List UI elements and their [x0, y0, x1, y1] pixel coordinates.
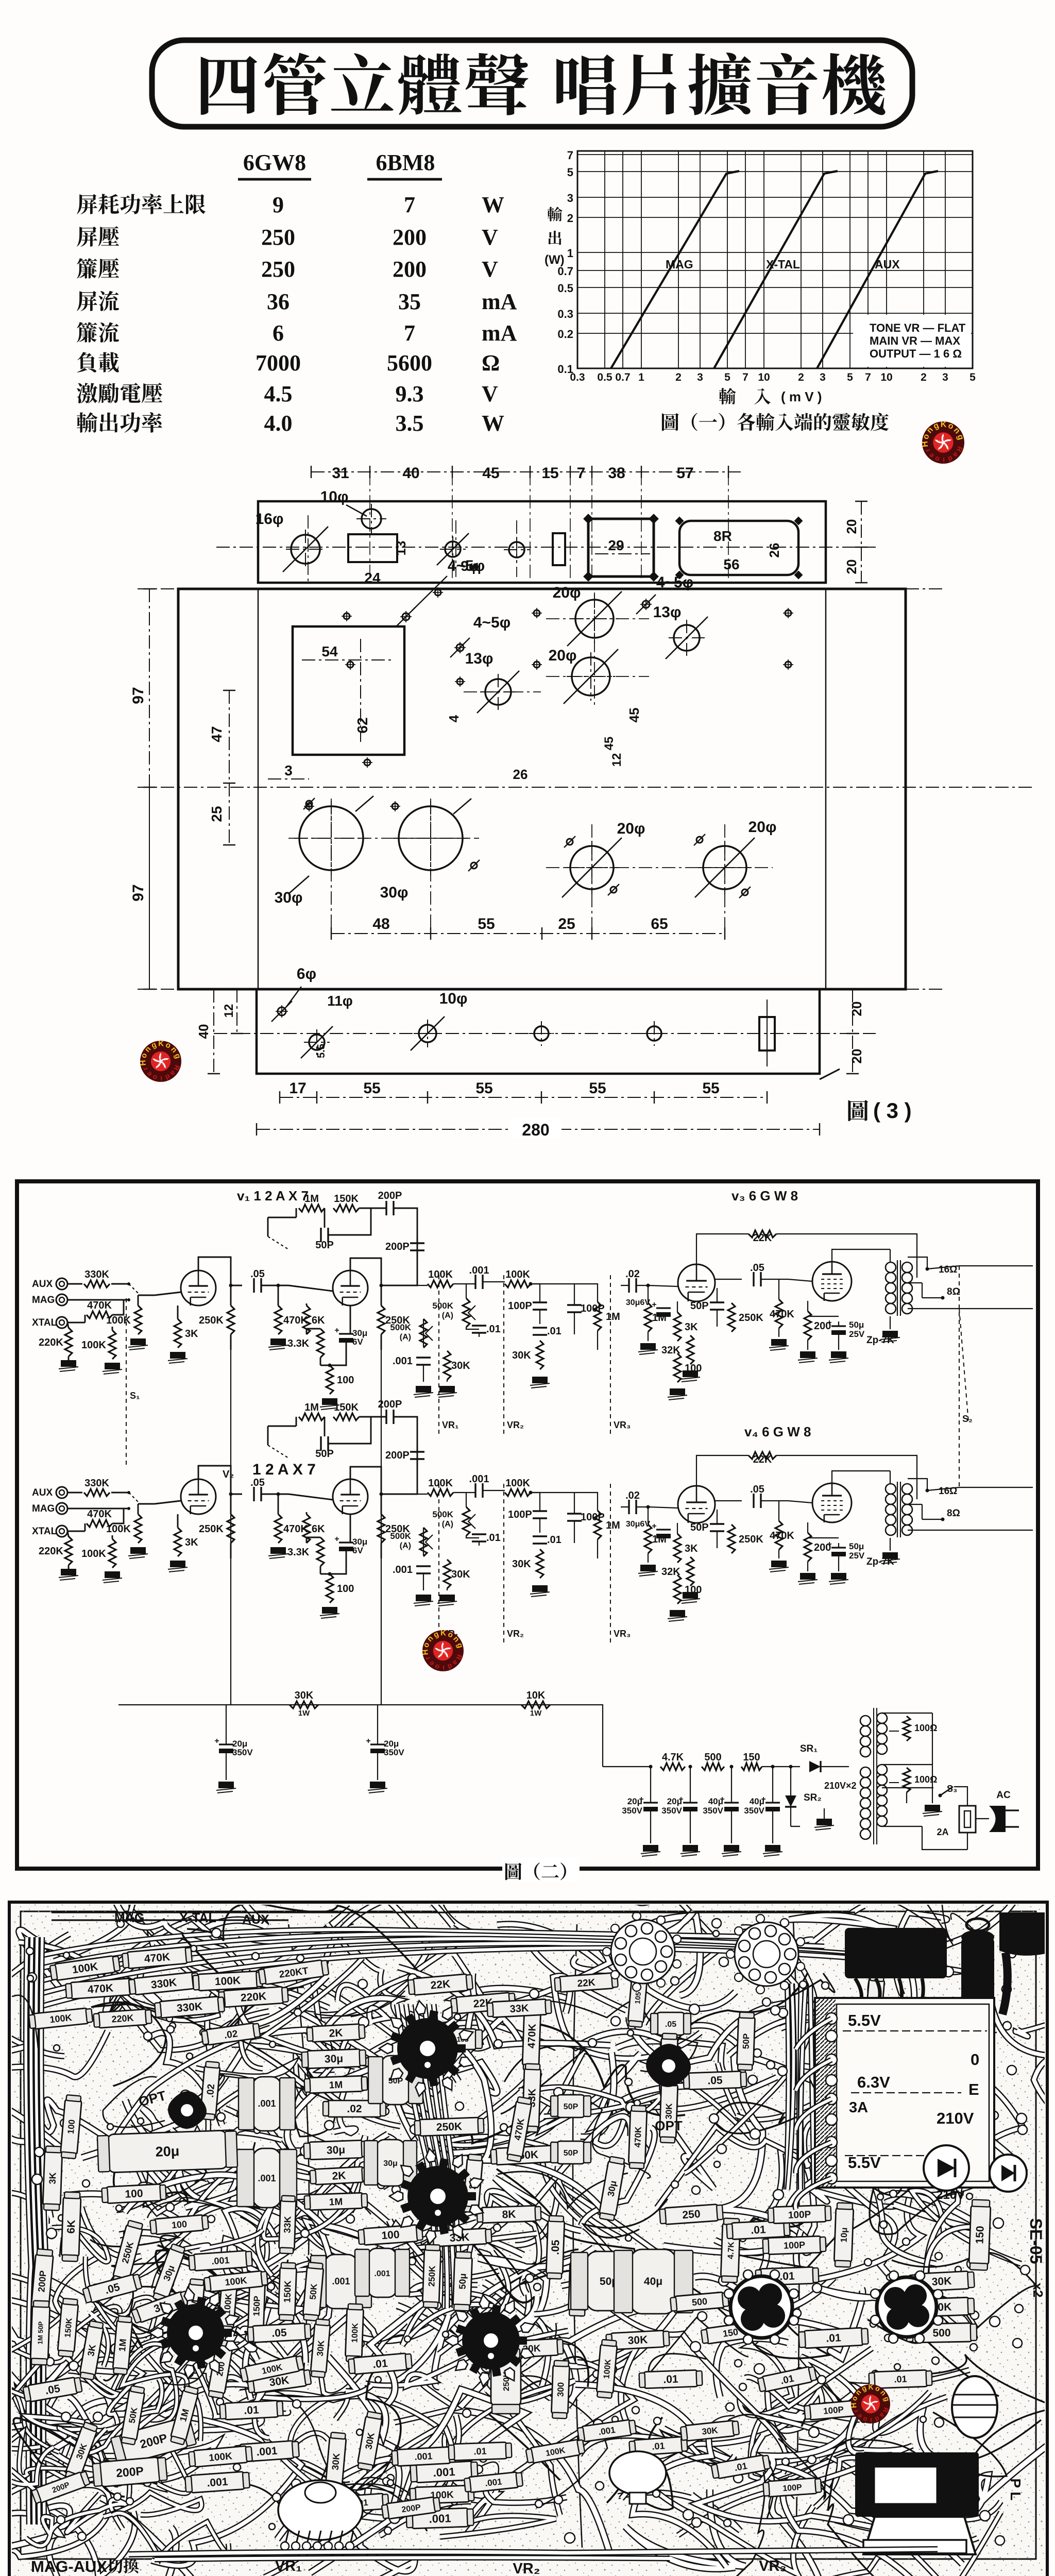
svg-text:Zp-7K: Zp-7K — [866, 1335, 894, 1346]
capacitor .001 — [475, 1275, 483, 1289]
svg-text:0.3: 0.3 — [557, 308, 573, 320]
svg-text:97: 97 — [130, 884, 147, 901]
black capacitor can — [961, 1937, 994, 2019]
svg-text:55: 55 — [475, 1080, 492, 1097]
input jack AUX — [56, 1487, 67, 1498]
svg-text:E: E — [968, 2080, 979, 2098]
component 470K — [506, 2096, 532, 2162]
hole 20phi u1 — [575, 600, 614, 638]
resistor 30K — [444, 1351, 451, 1380]
svg-text:.05: .05 — [250, 1268, 265, 1280]
table row mA — [77, 322, 97, 343]
svg-text:20: 20 — [849, 1049, 864, 1064]
svg-text:V₂: V₂ — [223, 1469, 234, 1480]
x axis title — [719, 388, 736, 404]
tube socket V1 — [379, 1999, 475, 2097]
svg-text:3K: 3K — [185, 1328, 198, 1340]
svg-text:22K: 22K — [430, 1978, 451, 1991]
rect hole 24x13 — [348, 534, 397, 562]
svg-text:2: 2 — [798, 371, 804, 383]
svg-text:100K: 100K — [81, 1548, 106, 1560]
component .05 — [546, 2215, 565, 2279]
component .01 — [757, 2366, 817, 2393]
svg-text:11φ: 11φ — [327, 993, 353, 1009]
resistor 3K cathode — [174, 1528, 181, 1556]
svg-text:10: 10 — [758, 371, 770, 383]
svg-text:30K: 30K — [627, 2334, 648, 2347]
ground — [641, 1845, 660, 1856]
component 30K — [357, 2411, 383, 2471]
svg-text:33K: 33K — [509, 2003, 529, 2015]
svg-text:15: 15 — [541, 465, 558, 482]
wire rail right — [592, 1705, 651, 1767]
component 30μ — [301, 2049, 366, 2069]
component .001 — [406, 2508, 473, 2529]
tube V1 triode A — [181, 1479, 216, 1514]
ground — [216, 1782, 236, 1793]
svg-text:250K: 250K — [199, 1315, 224, 1326]
svg-text:35: 35 — [398, 289, 421, 314]
tube socket V3 — [149, 2286, 241, 2379]
component 330K — [129, 1972, 199, 1995]
svg-text:MAG: MAG — [666, 258, 693, 271]
svg-text:7: 7 — [577, 465, 586, 482]
top band — [52, 1912, 855, 1920]
hole 13phi left — [485, 679, 511, 705]
resistor 100 — [674, 1353, 681, 1382]
component 10μ — [834, 2202, 854, 2267]
resistor 220K — [65, 1536, 72, 1565]
svg-text:12: 12 — [610, 753, 624, 767]
ground — [368, 1782, 387, 1793]
tube 6GW8 triode — [678, 1486, 715, 1523]
wire bus — [531, 1283, 561, 1284]
wire plate out — [231, 1494, 242, 1495]
component 40μ — [614, 2249, 693, 2314]
wire feedback — [268, 1426, 296, 1445]
svg-text:.001: .001 — [433, 2465, 455, 2479]
capacitor .001 — [475, 1483, 483, 1498]
tube V1 triode B — [333, 1270, 368, 1306]
component 1M — [112, 2316, 133, 2375]
svg-text:+: + — [366, 1737, 370, 1745]
component 150 — [969, 2199, 991, 2270]
component 3K — [43, 2146, 62, 2210]
component 200P — [110, 2416, 197, 2466]
svg-text:X-TAL: X-TAL — [179, 1911, 216, 1925]
component 100 — [358, 2225, 423, 2246]
caption figure 1 — [662, 413, 679, 431]
component .02 — [201, 2022, 260, 2045]
resistor 1M — [299, 1413, 325, 1420]
svg-text:470K: 470K — [87, 1300, 112, 1311]
svg-text:20: 20 — [849, 1002, 864, 1016]
curve X-TAL — [714, 171, 838, 368]
svg-text:330K: 330K — [176, 2001, 203, 2014]
svg-text:22K: 22K — [577, 1977, 596, 1989]
svg-text:10: 10 — [880, 371, 892, 383]
component 220KT — [258, 1959, 329, 1985]
component 100P — [804, 2400, 863, 2420]
svg-text:55: 55 — [478, 916, 495, 933]
svg-text:200P: 200P — [115, 2464, 144, 2480]
svg-text:0: 0 — [971, 2050, 979, 2069]
svg-text:MAG-AUX: MAG-AUX — [31, 2557, 107, 2575]
svg-text:mA: mA — [482, 320, 517, 346]
B+ rail — [118, 1342, 592, 1705]
rectifier SR2 — [785, 1795, 796, 1807]
svg-text:40: 40 — [196, 1024, 211, 1039]
svg-text:100P: 100P — [784, 2240, 806, 2250]
svg-text:5: 5 — [847, 371, 853, 383]
component .02 — [200, 2061, 220, 2120]
svg-text:350V: 350V — [661, 1806, 682, 1816]
svg-text:3.5: 3.5 — [396, 411, 424, 436]
component 1M — [304, 2076, 368, 2093]
component 300 — [551, 2360, 570, 2418]
svg-text:10μ: 10μ — [839, 2227, 849, 2243]
svg-text:13φ: 13φ — [465, 650, 494, 667]
svg-text:.05: .05 — [250, 1477, 265, 1488]
resistor 32K — [687, 1335, 694, 1364]
svg-text:100K: 100K — [214, 1975, 241, 1988]
capacitor .01 — [472, 1326, 486, 1333]
table row Ω — [77, 352, 96, 372]
hole 20phi l2 — [703, 846, 746, 889]
svg-text:7: 7 — [567, 149, 573, 162]
svg-text:7: 7 — [404, 320, 415, 346]
svg-text:210V: 210V — [936, 2188, 965, 2202]
component 2K — [307, 2024, 365, 2042]
component 3K — [79, 2320, 105, 2380]
component 100K — [49, 1955, 120, 1981]
svg-text:.001: .001 — [429, 2512, 451, 2525]
curve MAG — [611, 171, 739, 368]
svg-text:OUTPUT — 1 6 Ω: OUTPUT — 1 6 Ω — [870, 347, 962, 360]
svg-text:40μ: 40μ — [708, 1797, 723, 1806]
resistor 3K — [674, 1534, 681, 1563]
svg-text:45: 45 — [626, 708, 642, 723]
svg-text:30φ: 30φ — [380, 884, 409, 901]
capacitor 200P — [410, 1243, 424, 1250]
capacitor 30u6V — [656, 1307, 671, 1309]
resistor 150K — [333, 1413, 359, 1420]
svg-text:100K: 100K — [428, 1478, 453, 1489]
ground — [814, 1819, 834, 1830]
small mount holes — [344, 613, 350, 619]
svg-text:4.7K: 4.7K — [726, 2241, 736, 2259]
svg-text:20μ: 20μ — [627, 1797, 642, 1806]
table row V — [77, 383, 97, 403]
component 33K — [427, 2228, 491, 2247]
svg-text:31: 31 — [332, 465, 349, 482]
ground — [128, 1338, 148, 1350]
svg-text:.01: .01 — [652, 2441, 665, 2452]
hole 30phi 2 — [399, 806, 463, 870]
svg-text:.001: .001 — [211, 2255, 230, 2266]
board frame inner — [21, 1911, 1036, 2559]
svg-text:i: i — [870, 2416, 872, 2424]
component 100K — [278, 2489, 338, 2517]
ground — [268, 1338, 288, 1350]
svg-text:5: 5 — [724, 371, 730, 383]
svg-text:30μ6V: 30μ6V — [626, 1520, 650, 1529]
svg-text:150K: 150K — [334, 1193, 359, 1205]
svg-text:30K: 30K — [931, 2275, 952, 2288]
table row mA — [77, 291, 97, 311]
svg-text:5: 5 — [567, 166, 573, 179]
svg-text:62: 62 — [354, 717, 370, 733]
capacitor 100P — [567, 1305, 582, 1312]
rect hole 54x62 — [293, 626, 404, 755]
component .01 — [348, 2353, 412, 2375]
svg-text:100P: 100P — [823, 2404, 844, 2416]
component 150P — [248, 2279, 265, 2333]
capacitor .01 c — [533, 1328, 547, 1335]
hole 4-5phi b — [456, 644, 464, 651]
svg-text:K: K — [868, 2383, 873, 2391]
left dims 97 47 25 97 — [149, 589, 150, 787]
tube 6GW8 pentode — [812, 1262, 852, 1301]
rounded rect hole 8R — [679, 521, 798, 575]
svg-text:1 2 A X 7: 1 2 A X 7 — [252, 1461, 316, 1478]
svg-text:25V: 25V — [849, 1329, 865, 1339]
svg-text:5.5V: 5.5V — [848, 2154, 881, 2172]
feedback resistor 22K — [748, 1230, 776, 1238]
component 2K — [310, 2166, 368, 2185]
component 50P — [737, 2012, 755, 2070]
svg-text:200P: 200P — [385, 1241, 410, 1252]
component .001 — [392, 2447, 455, 2466]
svg-text:VR₂: VR₂ — [507, 1629, 524, 1639]
hole 16phi — [291, 535, 320, 564]
table row W — [77, 412, 97, 433]
resistor 100 — [326, 1574, 333, 1603]
svg-text:30φ: 30φ — [275, 889, 303, 906]
tube socket V4 — [445, 2294, 536, 2387]
component 500 — [670, 2292, 729, 2312]
switch S3 — [939, 1794, 942, 1798]
svg-text:.02: .02 — [625, 1268, 640, 1280]
corner dark mass top right — [999, 1912, 1046, 1956]
filter resistor 4.7K — [660, 1763, 685, 1770]
wire input bus — [67, 1493, 129, 1531]
band wires — [129, 2549, 938, 2554]
svg-text:+: + — [214, 1737, 219, 1745]
socket octal V6 — [871, 2271, 943, 2343]
ground — [128, 1547, 148, 1558]
svg-text:54: 54 — [321, 643, 338, 659]
svg-text:3A: 3A — [849, 2099, 868, 2116]
small rect hole — [553, 533, 565, 565]
svg-text:100: 100 — [337, 1583, 354, 1595]
capacitor 100P — [567, 1514, 582, 1521]
component .001 — [311, 2255, 371, 2309]
component .001 — [185, 2471, 250, 2494]
svg-text:K: K — [941, 420, 947, 429]
svg-text:50P: 50P — [564, 2149, 578, 2158]
svg-text:4: 4 — [446, 715, 462, 722]
AC plug — [989, 1806, 1006, 1832]
svg-text:280: 280 — [522, 1121, 549, 1139]
svg-text:50P: 50P — [564, 2103, 578, 2111]
svg-text:17: 17 — [289, 1080, 306, 1097]
title text — [201, 56, 257, 115]
component 2K — [463, 2154, 483, 2213]
hole 13phi right — [674, 625, 700, 651]
svg-text:6K: 6K — [312, 1523, 325, 1535]
svg-text:H: H — [921, 440, 930, 447]
svg-text:VR₁: VR₁ — [442, 1420, 458, 1430]
extended construction lines — [138, 589, 943, 989]
component 4.7K — [721, 2218, 740, 2282]
svg-text:.001: .001 — [469, 1265, 489, 1276]
svg-text:30μ6V: 30μ6V — [626, 1298, 650, 1307]
secondary taps — [908, 1257, 927, 1283]
svg-text:1M: 1M — [117, 2338, 128, 2352]
svg-text:100: 100 — [337, 1375, 354, 1386]
component .001 — [464, 2471, 523, 2493]
component 105 — [627, 1969, 648, 2027]
component 30K — [500, 2338, 564, 2358]
svg-text:3K: 3K — [86, 2344, 98, 2357]
hole c — [534, 1026, 549, 1041]
ground — [437, 1595, 457, 1606]
svg-text:.02: .02 — [224, 2028, 239, 2041]
component 470K — [122, 1946, 192, 1969]
svg-text:VR₃: VR₃ — [614, 1420, 631, 1430]
svg-text:.01: .01 — [826, 2332, 842, 2345]
resistor 470K — [775, 1299, 782, 1328]
component 1M 50P — [30, 2300, 50, 2365]
svg-text:12: 12 — [222, 1004, 236, 1018]
logo chassis — [139, 1039, 182, 1083]
capacitor .01 c — [533, 1536, 547, 1544]
svg-text:220K: 220K — [240, 1990, 267, 2004]
svg-text:48: 48 — [372, 916, 389, 933]
svg-text:500: 500 — [932, 2327, 950, 2340]
svg-text:H: H — [421, 1649, 430, 1655]
dim row 48 55 25 65 — [331, 933, 725, 934]
extra centerlines — [288, 619, 773, 868]
svg-text:350V: 350V — [232, 1748, 253, 1757]
component 100P — [763, 2478, 822, 2497]
svg-text:150K: 150K — [63, 2317, 74, 2338]
ground — [268, 1547, 288, 1558]
svg-text:+: + — [652, 1522, 656, 1531]
svg-text:S₂: S₂ — [962, 1414, 973, 1424]
hole plain — [509, 542, 524, 557]
resistor 1M — [594, 1302, 601, 1331]
svg-text:25: 25 — [558, 916, 575, 933]
resistor 1M — [644, 1303, 652, 1332]
component .01 — [755, 2267, 819, 2285]
svg-text:20μ: 20μ — [155, 2143, 180, 2160]
svg-text:.01: .01 — [779, 2270, 795, 2282]
svg-text:v₃ 6 G W 8: v₃ 6 G W 8 — [731, 1188, 798, 1204]
svg-text:470K: 470K — [526, 2023, 538, 2048]
svg-text:30μ: 30μ — [327, 2144, 346, 2156]
svg-text:3K: 3K — [47, 2172, 58, 2184]
svg-text:30K: 30K — [330, 2453, 342, 2471]
component .01 — [869, 2370, 932, 2388]
svg-text:100P: 100P — [788, 2209, 811, 2221]
resistor 100K — [428, 1280, 453, 1287]
svg-text:9: 9 — [273, 192, 284, 217]
svg-text:300: 300 — [556, 2382, 566, 2397]
svg-text:8Ω: 8Ω — [947, 1508, 960, 1519]
svg-text:v₁ 1 2 A X 7: v₁ 1 2 A X 7 — [237, 1188, 309, 1204]
svg-text:.05: .05 — [665, 2020, 676, 2029]
logo schematic — [421, 1629, 465, 1672]
svg-text:500K: 500K — [390, 1531, 411, 1541]
svg-text:500: 500 — [691, 2296, 708, 2308]
svg-text:MAG: MAG — [32, 1503, 55, 1514]
VR1 dashed — [438, 1484, 439, 1643]
svg-text:.01: .01 — [372, 2358, 388, 2370]
resistor 1M — [299, 1205, 325, 1212]
svg-text:(A): (A) — [442, 1311, 453, 1320]
svg-text:3: 3 — [697, 371, 703, 383]
component 100K — [193, 1971, 262, 1991]
capacitor 100P — [533, 1302, 547, 1310]
component 30K — [325, 2432, 347, 2491]
switch wiper — [129, 1493, 140, 1504]
svg-text:1: 1 — [638, 371, 644, 383]
svg-text:1M: 1M — [329, 2197, 343, 2208]
component 33K — [487, 1999, 551, 2018]
coil wrap — [952, 2376, 997, 2438]
svg-text:K: K — [440, 1629, 446, 1637]
svg-text:1M: 1M — [606, 1311, 620, 1323]
svg-text:26: 26 — [513, 767, 528, 782]
svg-text:100Ω: 100Ω — [914, 1774, 937, 1785]
power transformer secondary — [877, 1713, 887, 1723]
svg-text:20φ: 20φ — [549, 647, 577, 664]
svg-text:25V: 25V — [849, 1551, 865, 1561]
svg-text:.001: .001 — [256, 2445, 278, 2459]
resistor 1M — [594, 1511, 601, 1539]
svg-text:i: i — [943, 456, 945, 464]
component 250K — [414, 2117, 484, 2137]
capacitor 50P — [710, 1302, 724, 1310]
ground — [638, 1565, 658, 1576]
resistor 6K — [303, 1514, 310, 1543]
svg-text:S₁: S₁ — [130, 1391, 140, 1401]
svg-text:2A: 2A — [937, 1827, 948, 1837]
svg-text:40: 40 — [402, 465, 419, 482]
component 1M — [169, 2385, 199, 2445]
ground — [59, 1569, 78, 1580]
svg-text:330K: 330K — [84, 1478, 109, 1489]
svg-text:V: V — [482, 381, 498, 406]
svg-text:X-TAL: X-TAL — [766, 258, 800, 271]
resistor 3.3K — [317, 1329, 324, 1358]
ground — [103, 1571, 122, 1583]
resistor 220K — [65, 1328, 72, 1357]
diode disc 2 — [990, 2155, 1027, 2192]
component .05 — [82, 2273, 142, 2304]
svg-text:29: 29 — [608, 537, 624, 553]
svg-text:65: 65 — [651, 916, 668, 933]
svg-text:.001: .001 — [332, 2276, 350, 2286]
svg-text:38: 38 — [608, 465, 625, 482]
hole 10phi — [362, 509, 381, 529]
svg-text:33K: 33K — [282, 2216, 293, 2233]
component .05 — [247, 2323, 311, 2343]
component .05 — [651, 2012, 691, 2035]
svg-text:.001: .001 — [258, 2173, 276, 2183]
